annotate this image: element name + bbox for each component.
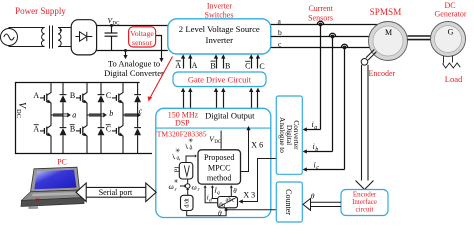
svg-text:C: C bbox=[106, 125, 111, 134]
svg-text:Digital Output: Digital Output bbox=[205, 111, 255, 121]
svg-text:C: C bbox=[259, 62, 264, 71]
svg-text:✳: ✳ bbox=[174, 178, 179, 185]
svg-text:A: A bbox=[192, 61, 198, 70]
svg-text:G: G bbox=[448, 28, 454, 37]
svg-text:C: C bbox=[245, 62, 250, 71]
svg-text:B: B bbox=[210, 62, 215, 71]
svg-text:PI: PI bbox=[174, 167, 181, 173]
svg-text:Voltage: Voltage bbox=[130, 29, 154, 38]
svg-text:c: c bbox=[316, 165, 319, 171]
svg-text:B: B bbox=[70, 91, 75, 100]
svg-text:A: A bbox=[33, 125, 39, 134]
svg-text:ω: ω bbox=[192, 183, 197, 192]
svg-text:a: a bbox=[72, 111, 76, 120]
svg-text:a: a bbox=[314, 125, 317, 131]
svg-text:DC: DC bbox=[214, 140, 222, 145]
svg-text:circuit: circuit bbox=[356, 205, 374, 213]
svg-text:Sensors: Sensors bbox=[308, 13, 333, 22]
svg-text:DC: DC bbox=[113, 22, 121, 27]
svg-text:b: b bbox=[109, 109, 113, 118]
svg-text:SPMSM: SPMSM bbox=[370, 7, 402, 17]
svg-text:θ: θ bbox=[233, 187, 237, 195]
svg-text:d/dt: d/dt bbox=[185, 198, 191, 208]
svg-text:method: method bbox=[207, 173, 232, 182]
svg-text:c: c bbox=[139, 107, 143, 116]
svg-text:DC: DC bbox=[15, 109, 22, 118]
svg-text:MPCC: MPCC bbox=[208, 163, 231, 172]
svg-text:B: B bbox=[225, 62, 230, 71]
svg-text:X 6: X 6 bbox=[251, 141, 263, 150]
svg-text:X 3: X 3 bbox=[243, 190, 255, 199]
svg-text:TM320F283385: TM320F283385 bbox=[157, 129, 207, 138]
svg-text:Inverter: Inverter bbox=[207, 1, 233, 10]
svg-text:PC: PC bbox=[57, 158, 67, 167]
svg-text:B: B bbox=[70, 125, 75, 134]
svg-text:Switches: Switches bbox=[205, 10, 234, 19]
svg-text:DSP: DSP bbox=[175, 119, 190, 128]
svg-text:Digital Converter: Digital Converter bbox=[104, 68, 164, 78]
svg-text:Proposed: Proposed bbox=[204, 153, 234, 162]
svg-text:Encoder: Encoder bbox=[369, 69, 396, 78]
svg-text:Load: Load bbox=[445, 74, 463, 84]
svg-text:dq: dq bbox=[218, 202, 225, 209]
svg-text:abc: abc bbox=[225, 196, 234, 203]
svg-text:sensor: sensor bbox=[132, 38, 152, 47]
svg-text:Counter: Counter bbox=[284, 189, 293, 215]
svg-text:Gate Drive Circuit: Gate Drive Circuit bbox=[188, 75, 252, 85]
svg-text:2 Level Voltage Source: 2 Level Voltage Source bbox=[179, 24, 260, 34]
svg-text:M: M bbox=[385, 28, 392, 37]
svg-text:Converter: Converter bbox=[292, 120, 301, 150]
svg-text:Current: Current bbox=[308, 4, 333, 13]
svg-text:Power Supply: Power Supply bbox=[15, 6, 66, 16]
svg-text:θ: θ bbox=[218, 209, 222, 218]
svg-text:Serial port: Serial port bbox=[99, 188, 133, 197]
svg-text:Inverter: Inverter bbox=[206, 35, 234, 45]
svg-text:A: A bbox=[33, 91, 39, 100]
svg-text:A: A bbox=[175, 61, 181, 70]
svg-text:DC: DC bbox=[444, 1, 455, 10]
svg-text:q: q bbox=[217, 190, 220, 196]
svg-text:Generator: Generator bbox=[435, 10, 467, 19]
svg-text:b: b bbox=[315, 147, 318, 153]
svg-text:C: C bbox=[106, 91, 111, 100]
svg-text:θ: θ bbox=[311, 191, 315, 200]
svg-text:d: d bbox=[209, 198, 212, 204]
svg-text:b: b bbox=[278, 28, 282, 37]
